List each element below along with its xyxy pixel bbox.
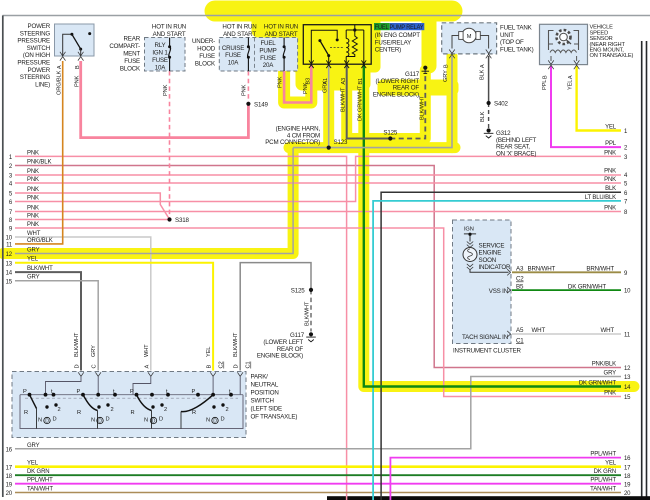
internal feed jogs <box>46 376 82 394</box>
svg-text:YEL: YEL <box>605 461 617 467</box>
svg-text:G117: G117 <box>290 332 305 339</box>
svg-text:A3: A3 <box>341 78 347 85</box>
wire 20 TAN/WHT full width <box>15 492 621 494</box>
svg-text:B1: B1 <box>358 78 364 85</box>
svg-text:LT BLU/BLK: LT BLU/BLK <box>585 195 616 201</box>
svg-text:BLK/WHT: BLK/WHT <box>420 95 426 120</box>
svg-text:IGN 1: IGN 1 <box>152 50 168 57</box>
svg-text:FUSE: FUSE <box>199 53 215 60</box>
svg-text:BLK/WHT: BLK/WHT <box>305 301 311 326</box>
svg-text:STEERING: STEERING <box>20 30 51 37</box>
svg-text:YEL: YEL <box>568 80 574 90</box>
svg-text:YEL: YEL <box>27 461 39 467</box>
svg-text:SWITCH: SWITCH <box>251 398 274 405</box>
underhood fuse box (cruise + fuel pump) <box>219 38 297 72</box>
svg-text:10A: 10A <box>228 60 240 67</box>
fuse RLY IGN 1 box <box>145 38 186 72</box>
svg-text:ORG/BLK: ORG/BLK <box>27 238 53 244</box>
svg-text:C1: C1 <box>246 362 252 369</box>
svg-text:B: B <box>444 64 450 68</box>
wire WHT cluster A5 to right wire 11 <box>512 333 621 335</box>
svg-text:(ON HIGH: (ON HIGH <box>23 52 50 59</box>
svg-text:PNK: PNK <box>604 169 616 175</box>
park/neutral switch box <box>12 372 246 438</box>
svg-text:FUEL: FUEL <box>260 40 276 47</box>
svg-text:PNK: PNK <box>27 169 39 175</box>
svg-text:D: D <box>213 419 217 425</box>
wire 1 PNK left-edge to vertical x346.6 <box>15 156 347 500</box>
wire 14 BLK/WHT to park/neutral pin D <box>15 272 81 370</box>
svg-text:BLOCK: BLOCK <box>195 61 216 68</box>
wire 15 GRY to park/neutral pin C <box>15 281 98 371</box>
svg-text:HOOD: HOOD <box>197 46 216 53</box>
svg-text:PPL/WHT: PPL/WHT <box>590 478 616 484</box>
wire 3 PNK straight across (right wire 4) <box>15 174 621 176</box>
svg-text:INDICATOR: INDICATOR <box>479 264 512 271</box>
svg-text:11: 11 <box>624 333 631 339</box>
svg-text:PNK: PNK <box>604 177 616 183</box>
svg-text:POWER: POWER <box>28 23 51 30</box>
svg-text:PCM CONNECTOR): PCM CONNECTOR) <box>265 139 320 146</box>
node S125 left <box>309 288 313 292</box>
highlight S123 horizontal <box>289 142 455 153</box>
svg-text:D: D <box>152 419 156 425</box>
contact row / bus <box>20 395 243 429</box>
svg-text:BLK: BLK <box>480 69 486 80</box>
relay U1 box <box>303 25 371 68</box>
svg-text:PPL/WHT: PPL/WHT <box>590 452 616 458</box>
svg-text:D: D <box>98 419 102 425</box>
svg-text:PNK: PNK <box>74 75 80 87</box>
wire PPL speed sensor B to right wire 2 <box>551 66 621 147</box>
svg-text:WHT: WHT <box>144 344 150 357</box>
svg-text:S318: S318 <box>175 217 189 224</box>
svg-text:2: 2 <box>226 407 229 413</box>
svg-text:10A: 10A <box>155 64 167 71</box>
wire DK GRN/WHT relay B1 to right wire 14 <box>364 65 621 387</box>
svg-text:S125: S125 <box>383 130 397 137</box>
svg-text:OF TRANSAXLE): OF TRANSAXLE) <box>251 414 298 421</box>
svg-text:P: P <box>130 389 134 395</box>
wire BLK dashed S402 to G312 <box>488 103 490 131</box>
svg-text:BLK/WHT: BLK/WHT <box>341 87 347 112</box>
svg-text:P: P <box>192 389 196 395</box>
svg-text:19: 19 <box>624 482 631 488</box>
wire 5 PNK bends to splice S318 <box>15 193 169 219</box>
svg-text:20: 20 <box>624 491 631 497</box>
svg-text:12: 12 <box>624 366 631 372</box>
highlight gry to left edge wire 12 <box>3 148 293 254</box>
fuel tank unit box <box>442 23 497 59</box>
svg-text:20: 20 <box>6 491 13 497</box>
svg-text:(IN ENG COMPT: (IN ENG COMPT <box>375 32 420 39</box>
wire BLK/WHT park/neutral pin D2 to S125 left <box>240 263 311 371</box>
node S123 <box>327 146 331 150</box>
svg-text:(TOP OF: (TOP OF <box>500 39 524 46</box>
svg-text:AND START: AND START <box>153 31 186 38</box>
svg-text:18: 18 <box>6 474 13 480</box>
svg-text:GRY: GRY <box>27 443 40 449</box>
svg-text:PNK: PNK <box>27 196 39 202</box>
svg-text:19: 19 <box>6 482 13 488</box>
svg-text:S125: S125 <box>291 288 305 295</box>
svg-text:PNK: PNK <box>27 150 39 156</box>
svg-text:PNK: PNK <box>604 391 616 397</box>
svg-text:A: A <box>144 365 150 369</box>
highlight pnk loop stroke <box>284 66 311 103</box>
highlight blk/wht ground path <box>347 66 426 139</box>
wire 13 YEL to park/neutral pin B <box>15 263 213 371</box>
wire BLK right-6 to bottom edge <box>381 192 621 500</box>
svg-text:C: C <box>92 365 98 369</box>
svg-text:PNK/BLK: PNK/BLK <box>592 362 616 368</box>
page frame left line <box>2 16 4 498</box>
svg-text:GRY: GRY <box>91 345 97 357</box>
highlight gry relay A1 wire <box>323 66 334 148</box>
wire 9 PNK to vertical x443.7 down to right wire 15 <box>15 228 621 397</box>
svg-text:B: B <box>543 75 549 79</box>
svg-text:B: B <box>75 65 81 69</box>
svg-text:2: 2 <box>58 407 61 413</box>
svg-text:NEUTRAL: NEUTRAL <box>251 382 279 389</box>
svg-text:PNK: PNK <box>27 206 39 212</box>
svg-text:GRY: GRY <box>323 81 329 93</box>
svg-text:BLK/WHT: BLK/WHT <box>27 266 53 272</box>
wire BLK/WHT dashed S125 to G117 right <box>390 68 425 139</box>
svg-text:20A: 20A <box>263 62 275 69</box>
svg-text:YEL: YEL <box>605 125 617 131</box>
wire 18 DK GRN full width <box>15 474 621 476</box>
svg-text:PNK: PNK <box>27 177 39 183</box>
svg-text:CRUISE: CRUISE <box>222 45 244 52</box>
wire LT BLU/BLK right-7 to bottom edge <box>373 201 621 500</box>
svg-text:10: 10 <box>6 236 13 242</box>
instrument cluster box <box>453 220 512 344</box>
svg-text:FUSE/RELAY: FUSE/RELAY <box>375 39 411 46</box>
svg-text:12: 12 <box>6 252 13 258</box>
svg-text:BLOCK: BLOCK <box>120 66 141 73</box>
svg-text:BRN/WHT: BRN/WHT <box>586 266 614 273</box>
highlight fuse 20A side blob <box>285 38 300 68</box>
wire DK GRN/WHT cluster B5 to right wire 10 <box>512 289 621 291</box>
svg-text:A5: A5 <box>516 327 524 334</box>
svg-text:INSTRUMENT CLUSTER: INSTRUMENT CLUSTER <box>453 348 522 355</box>
wire PNK thick power steering B to S149 <box>81 61 249 138</box>
svg-text:TAN/WHT: TAN/WHT <box>590 487 616 493</box>
svg-text:ORG/BLK: ORG/BLK <box>56 70 62 95</box>
svg-text:FUSE: FUSE <box>260 55 276 62</box>
switch gang 1 <box>23 389 61 429</box>
svg-text:PRESSURE: PRESSURE <box>17 38 50 45</box>
svg-text:STEERING: STEERING <box>20 74 51 81</box>
svg-text:S149: S149 <box>254 102 268 109</box>
wire BLK/WHT relay A3 to S125 <box>347 65 391 139</box>
svg-text:PNK: PNK <box>604 150 616 156</box>
svg-text:DK GRN/WHT: DK GRN/WHT <box>579 381 617 387</box>
svg-text:10: 10 <box>624 289 631 295</box>
svg-text:FUSE: FUSE <box>152 57 168 64</box>
ground G312 <box>484 128 494 138</box>
svg-text:B3: B3 <box>306 78 312 85</box>
svg-text:GRY: GRY <box>604 371 617 377</box>
svg-text:18: 18 <box>624 474 631 480</box>
svg-text:WHT: WHT <box>532 327 546 334</box>
svg-text:TAN/WHT: TAN/WHT <box>27 487 53 493</box>
svg-text:M: M <box>467 34 472 40</box>
svg-text:PARK/: PARK/ <box>251 374 269 381</box>
svg-text:R: R <box>131 410 135 416</box>
wire BRN/WHT cluster A3 to right wire 9 <box>512 271 621 273</box>
svg-text:HOT IN RUN: HOT IN RUN <box>152 24 186 31</box>
node S402 <box>487 101 491 105</box>
wire 6 PNK jog up at x355.6 to right wire 3 <box>15 156 621 201</box>
svg-text:AND START: AND START <box>223 31 256 38</box>
svg-text:MENT: MENT <box>123 51 140 58</box>
wire 12 GRY to S123 via x293.1 <box>15 148 293 254</box>
wire 17 YEL full width <box>15 465 621 468</box>
wire GRY relay A1 to S123 <box>328 65 330 148</box>
switch gang 3 <box>130 389 169 429</box>
svg-text:PPL: PPL <box>542 80 548 90</box>
svg-text:BLK: BLK <box>605 186 616 192</box>
svg-text:LINE): LINE) <box>35 81 50 88</box>
svg-text:2: 2 <box>111 407 114 413</box>
highlight top swath <box>215 1 452 22</box>
svg-text:C2: C2 <box>516 276 524 283</box>
svg-text:R: R <box>192 410 196 416</box>
svg-text:BLK: BLK <box>480 111 486 122</box>
svg-text:14: 14 <box>6 271 13 277</box>
svg-text:14: 14 <box>624 385 631 391</box>
svg-text:PPL: PPL <box>605 141 617 147</box>
svg-text:N: N <box>144 418 148 424</box>
wire 2 PNK/BLK left-edge to vertical x434.2 to right wire 12 <box>15 166 621 368</box>
svg-text:PRESSURE: PRESSURE <box>17 60 50 67</box>
vehicle speed sensor box <box>540 24 588 69</box>
svg-text:HOT IN RUN: HOT IN RUN <box>222 24 256 31</box>
node S149 <box>246 102 250 106</box>
svg-text:RLY: RLY <box>154 42 165 49</box>
highlight pins blob <box>296 60 370 90</box>
wire GRY fuel tank A BLK to S402 <box>488 56 490 103</box>
switch gang 4 <box>181 389 232 429</box>
svg-text:FUEL TANK): FUEL TANK) <box>500 46 534 53</box>
wire PNK dashed rly ign1 fuse to S318 <box>169 71 171 220</box>
svg-text:YEL: YEL <box>27 257 39 263</box>
svg-text:DK GRN: DK GRN <box>594 469 616 475</box>
page frame top line <box>3 15 650 17</box>
svg-text:PNK: PNK <box>163 84 169 96</box>
wire PPL/WHT right-16 to bottom edge <box>390 458 621 500</box>
svg-text:SERVICE: SERVICE <box>479 243 505 250</box>
svg-text:16: 16 <box>6 447 13 453</box>
svg-text:D: D <box>53 417 57 423</box>
wire 19 PPL/WHT full width <box>15 483 621 485</box>
highlight hot-label blob <box>252 14 304 37</box>
svg-text:S402: S402 <box>494 101 508 108</box>
wire 11 ORG/BLK to power steering pin A <box>15 61 63 244</box>
highlight dk grn/wht wire <box>364 66 634 387</box>
svg-text:PNK/BLK: PNK/BLK <box>27 160 51 166</box>
highlighter layer <box>3 8 634 387</box>
svg-text:ENGINE BLOCK): ENGINE BLOCK) <box>373 91 419 98</box>
node S125 right <box>388 136 392 140</box>
svg-text:P: P <box>77 389 81 395</box>
svg-text:R: R <box>24 410 28 416</box>
svg-text:AND START: AND START <box>265 31 298 38</box>
svg-text:R: R <box>77 410 81 416</box>
svg-text:WHT: WHT <box>27 231 41 237</box>
power steering pressure switch box <box>55 24 95 61</box>
svg-text:P: P <box>23 389 27 395</box>
svg-text:D: D <box>234 365 240 369</box>
svg-text:PNK: PNK <box>27 222 39 228</box>
svg-text:DK GRN: DK GRN <box>27 469 49 475</box>
svg-text:ENGINE BLOCK): ENGINE BLOCK) <box>257 353 303 360</box>
svg-text:WHT: WHT <box>600 327 614 334</box>
wire PNK fuel pump fuse to relay B3 <box>284 65 311 103</box>
svg-text:YEL: YEL <box>206 347 212 357</box>
wire BLK/WHT dashed S125 left to G117 left <box>310 290 312 332</box>
svg-text:C1: C1 <box>516 337 524 344</box>
node S318 <box>167 217 171 221</box>
svg-text:POSITION: POSITION <box>251 390 279 397</box>
svg-text:BLK/WHT: BLK/WHT <box>74 332 80 357</box>
svg-text:16: 16 <box>624 456 631 462</box>
svg-text:FUSE: FUSE <box>225 52 241 59</box>
switch gang 2 <box>77 389 117 429</box>
wire YEL speed sensor A to right wire 1 <box>577 66 621 131</box>
page frame right double line <box>641 41 643 498</box>
svg-text:UNIT: UNIT <box>500 32 514 39</box>
svg-text:DK GRN/WHT: DK GRN/WHT <box>358 85 364 121</box>
wire 8 PNK to splice S318 <box>15 219 170 221</box>
svg-text:PNK: PNK <box>27 214 39 220</box>
svg-text:TACH SIGNAL IN: TACH SIGNAL IN <box>462 334 508 341</box>
svg-text:D: D <box>159 417 163 423</box>
wire GRY S123 to fuel tank unit pin B <box>293 56 452 148</box>
svg-text:D: D <box>106 417 110 423</box>
wire PNK dashed cruise fuse to S149 <box>247 71 249 104</box>
svg-text:PPL/WHT: PPL/WHT <box>27 478 53 484</box>
svg-text:POWER: POWER <box>28 67 51 74</box>
svg-text:PUMP: PUMP <box>259 47 276 54</box>
highlight relay box blob <box>292 15 380 72</box>
page frame bottom black bar <box>327 496 650 500</box>
svg-text:(LEFT SIDE: (LEFT SIDE <box>251 406 282 413</box>
svg-text:S123: S123 <box>334 139 348 146</box>
wire 10 WHT to park/neutral pin A <box>15 237 151 371</box>
svg-text:2: 2 <box>164 407 167 413</box>
highlight G117 text blob <box>378 80 458 95</box>
svg-text:13: 13 <box>6 261 13 267</box>
svg-text:15: 15 <box>6 279 13 285</box>
svg-text:B: B <box>207 365 213 369</box>
wire 7 PNK straight across (right wire 8) <box>15 211 621 213</box>
svg-text:UNDER-: UNDER- <box>192 38 215 45</box>
svg-text:GRY: GRY <box>27 275 40 281</box>
highlight G117 right column <box>422 8 437 66</box>
svg-text:FUEL TANK: FUEL TANK <box>500 25 533 32</box>
ground G117 left <box>306 332 316 342</box>
svg-text:N: N <box>38 418 42 424</box>
svg-text:DK GRN/WHT: DK GRN/WHT <box>568 283 606 290</box>
svg-text:C2: C2 <box>219 362 225 369</box>
svg-text:D: D <box>75 365 81 369</box>
ground G117 right <box>422 66 430 74</box>
svg-text:13: 13 <box>624 375 631 381</box>
svg-text:VSS IN: VSS IN <box>489 288 508 295</box>
wire 16 GRY left-edge up to right wire 13 <box>15 377 621 449</box>
svg-text:BLK/WHT: BLK/WHT <box>233 332 239 357</box>
svg-text:COMPART-: COMPART- <box>109 43 140 50</box>
svg-text:A: A <box>480 64 486 68</box>
svg-text:ON 'X' BRACE): ON 'X' BRACE) <box>496 150 536 157</box>
svg-text:FUEL PUMP RELAY: FUEL PUMP RELAY <box>375 24 424 31</box>
svg-text:SWITCH: SWITCH <box>27 45 50 52</box>
svg-text:ON TRANSAXLE): ON TRANSAXLE) <box>590 53 634 59</box>
svg-text:A: A <box>57 65 63 69</box>
svg-text:PNK: PNK <box>277 76 283 88</box>
highlight fuel tank B gry wire <box>447 56 458 148</box>
svg-text:SOON: SOON <box>479 257 497 264</box>
svg-text:PNK: PNK <box>604 206 616 212</box>
svg-text:N: N <box>206 418 210 424</box>
svg-text:CENTER): CENTER) <box>375 47 401 54</box>
svg-text:D: D <box>221 417 225 423</box>
svg-text:17: 17 <box>624 465 631 471</box>
svg-text:GRY: GRY <box>443 70 449 82</box>
svg-text:GRY: GRY <box>27 248 40 254</box>
svg-text:HOT IN RUN: HOT IN RUN <box>264 24 298 31</box>
svg-text:11: 11 <box>6 243 13 249</box>
svg-text:ENGINE: ENGINE <box>479 250 502 257</box>
svg-text:IGN: IGN <box>464 227 474 233</box>
svg-text:17: 17 <box>6 465 13 471</box>
svg-text:PNK: PNK <box>27 187 39 193</box>
svg-text:15: 15 <box>624 395 631 401</box>
svg-text:FUSE: FUSE <box>124 58 140 65</box>
svg-text:REAR: REAR <box>124 36 141 43</box>
svg-text:N: N <box>91 418 95 424</box>
fuel pump relay selected label <box>374 23 424 31</box>
svg-text:PNK: PNK <box>242 84 248 96</box>
svg-text:D: D <box>45 419 49 425</box>
svg-text:A: A <box>568 75 574 79</box>
wire 4 PNK straight across (right wire 5) <box>15 182 621 184</box>
